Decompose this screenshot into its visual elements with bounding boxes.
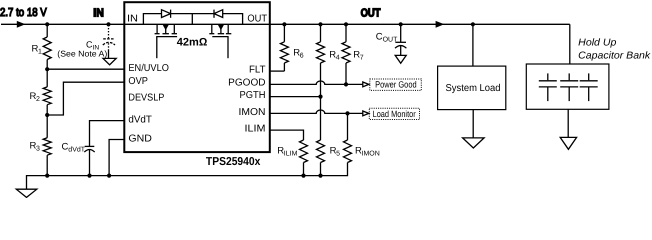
svg-text:42mΩ: 42mΩ (177, 37, 208, 49)
svg-text:ILIM: ILIM (284, 150, 298, 157)
box Hold Up Capacitor Bank (526, 64, 609, 109)
svg-text:DEVSLP: DEVSLP (128, 93, 164, 104)
wire drop to System Load (472, 24, 474, 66)
label COUT (376, 31, 398, 43)
box Power Good (370, 79, 422, 90)
node junction OUT/R4 (318, 22, 322, 26)
resistor R7 (342, 24, 350, 84)
svg-text:Power Good: Power Good (375, 80, 417, 90)
resistor R3 (43, 115, 51, 176)
svg-text:2: 2 (36, 96, 40, 103)
label R2 (30, 91, 41, 103)
wire OVP (47, 82, 123, 115)
svg-text:System Load: System Load (446, 83, 501, 94)
svg-text:PGOOD: PGOOD (228, 77, 265, 88)
svg-text:OUT: OUT (383, 36, 399, 43)
svg-text:dVdT: dVdT (128, 115, 152, 126)
node junction PGTH/R4/R5 (318, 95, 322, 99)
ground System Load (463, 138, 485, 148)
transistor Q1 pass FET (155, 24, 178, 58)
capacitor COUT (395, 24, 406, 55)
label CdVdT (62, 142, 86, 154)
box System Load (438, 66, 506, 110)
capacitor bank C2 (560, 73, 578, 101)
resistor R1 (43, 24, 51, 69)
svg-text:FLT: FLT (249, 64, 266, 75)
node junction rail/RILIM (301, 174, 305, 178)
ground main left (16, 189, 37, 197)
node junction R2/R3/OVP (45, 113, 49, 117)
node junction rail/CdVdT (87, 174, 91, 178)
svg-text:2.7 to 18 V: 2.7 to 18 V (0, 7, 47, 19)
node junction IN/R1 (45, 22, 49, 26)
IC U1 TPS25940x body (124, 2, 269, 152)
label R6 (293, 48, 304, 60)
arrow Load Monitor output (363, 111, 369, 116)
wire IMON with hop over R5 (270, 110, 363, 113)
label CIN (86, 40, 99, 52)
node junction rail/R3 (45, 174, 49, 178)
node junction IN/CIN (106, 22, 110, 26)
node junction rail/GND (107, 174, 111, 178)
node junction PGOOD/R7 (344, 82, 348, 86)
wire internal diode bus (143, 14, 242, 25)
svg-text:Hold Up: Hold Up (578, 37, 617, 48)
resistor RILIM (300, 140, 308, 176)
svg-text:(See Note A): (See Note A) (57, 48, 107, 58)
svg-text:1: 1 (38, 49, 42, 56)
node junction IMON/RIMON (345, 111, 349, 115)
node junction OUT/System Load (471, 22, 475, 26)
wire FLT (270, 70, 285, 72)
svg-text:IMON: IMON (362, 150, 380, 157)
resistor R2 (43, 69, 51, 115)
transistor Q2 pass FET (209, 24, 231, 58)
box Load Monitor (369, 108, 419, 119)
wire dVdT (90, 121, 124, 146)
wire PGTH (270, 96, 321, 98)
svg-text:Load Monitor: Load Monitor (373, 109, 416, 119)
label R5 (330, 145, 341, 157)
svg-text:6: 6 (300, 53, 304, 60)
ground COUT (395, 55, 406, 63)
label R1 (32, 44, 43, 56)
diode D1 body diode (162, 10, 171, 18)
wire PGOOD with hop over R4 (270, 81, 363, 84)
wire internal mid riser (191, 14, 193, 25)
svg-text:PGTH: PGTH (240, 90, 266, 101)
wire capacitor bank ground lead (567, 109, 569, 137)
wire OUT main (270, 23, 570, 25)
label RIMON (355, 145, 380, 157)
svg-text:OUT: OUT (247, 13, 267, 24)
wire drop to capacitor bank (569, 24, 571, 64)
svg-text:OUT: OUT (361, 8, 381, 20)
resistor RIMON (344, 113, 352, 162)
resistor R5 (317, 97, 325, 176)
capacitor bank C1 (539, 73, 557, 101)
svg-text:OVP: OVP (128, 76, 148, 87)
svg-text:IMON: IMON (239, 107, 266, 118)
label R7 (353, 50, 364, 62)
svg-text:GND: GND (128, 133, 152, 144)
label Hold Up Capacitor Bank (578, 37, 651, 61)
capacitor CdVdT (84, 146, 94, 175)
capacitor bank C3 (580, 73, 598, 101)
svg-text:IN: IN (93, 8, 104, 20)
node junction rail/R5 (318, 174, 322, 178)
resistor R4 (317, 24, 325, 96)
svg-text:Capacitor Bank: Capacitor Bank (578, 51, 651, 62)
svg-text:EN/UVLO: EN/UVLO (128, 63, 169, 74)
arrow input flow (17, 21, 26, 28)
wire ground rail (27, 163, 348, 190)
label R3 (30, 141, 41, 153)
node junction R1/R2/EN (45, 67, 49, 71)
ground CIN (103, 58, 116, 65)
svg-text:TPS25940x: TPS25940x (206, 156, 261, 168)
node junction OUT/COUT (399, 22, 403, 26)
wire System Load ground lead (472, 110, 474, 138)
resistor R6 (280, 24, 288, 71)
wire EN/UVLO (47, 68, 123, 70)
capacitor CIN dashed branch (103, 25, 115, 58)
node junction OUT/R7 (344, 22, 348, 26)
label R4 (329, 50, 340, 62)
svg-text:ILIM: ILIM (245, 124, 266, 135)
wire IN main (1, 23, 124, 25)
wire GND pin (109, 140, 123, 176)
arrow output flow (436, 21, 445, 28)
svg-text:dVdT: dVdT (68, 146, 85, 154)
node junction OUT/R6 (282, 22, 286, 26)
label RILIM (277, 145, 297, 157)
wire ILIM (270, 130, 304, 140)
wire internal VIN-VOUT through IC (124, 23, 270, 25)
svg-text:7: 7 (360, 55, 364, 62)
svg-text:5: 5 (336, 150, 340, 157)
svg-text:IN: IN (127, 13, 138, 24)
svg-text:3: 3 (36, 146, 40, 153)
svg-text:4: 4 (336, 55, 340, 62)
diode D2 body diode (214, 10, 223, 18)
ground capacitor bank (560, 137, 576, 149)
arrow Power Good output (363, 82, 369, 87)
